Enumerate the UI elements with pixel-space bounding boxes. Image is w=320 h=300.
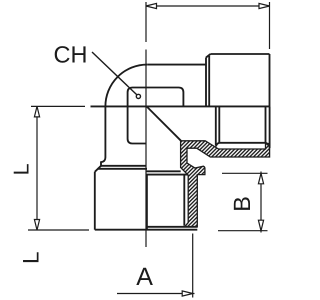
bottom hex chamfer — [95, 166, 101, 172]
left leg wall with collar flare — [101, 106, 105, 165]
right extension line of top dimension — [269, 2, 271, 49]
svg-text:L: L — [9, 163, 33, 175]
CH leader line — [92, 52, 137, 95]
bottom port bore left (section boundary) — [146, 175, 148, 230]
long horizontal line (hex bottom face + L extension alignment) — [91, 105, 270, 107]
B dimension (right) — [218, 172, 268, 233]
body top edge — [147, 64, 206, 66]
bottom port thread crest line — [183, 175, 185, 226]
top port hex top edge — [211, 53, 270, 55]
svg-text:B: B — [229, 196, 255, 212]
bottom hex top face lines — [101, 165, 146, 167]
CH leader circle — [136, 94, 140, 98]
svg-text:CH: CH — [54, 42, 88, 68]
top socket bore bottom — [219, 142, 265, 144]
top socket thread crest lines — [218, 106, 220, 142]
hatched section band (socket bottoms + miter + thread zone) — [181, 141, 270, 227]
A dimension (bottom) — [117, 234, 195, 298]
L dimension (left) — [28, 106, 89, 230]
svg-text:L: L — [18, 251, 43, 264]
top socket outer walls (section) — [215, 106, 217, 145]
bottom port end face — [95, 229, 198, 231]
bottom port bore end line — [147, 226, 197, 228]
corner block rounded outline — [128, 88, 184, 144]
top port chamfer step (two verticals + diagonal) — [205, 58, 207, 107]
top port hex right edge — [269, 54, 271, 106]
bore bottom corner chamfers — [216, 143, 219, 147]
top dimension line — [146, 3, 270, 8]
centerline of bottom port (also left extension of top dimension) — [145, 2, 147, 247]
collar lines — [146, 170, 181, 172]
bottom hex left edge — [94, 172, 96, 230]
body outer corner arc — [105, 65, 147, 107]
svg-text:A: A — [136, 263, 153, 291]
miter diagonal — [147, 107, 181, 141]
